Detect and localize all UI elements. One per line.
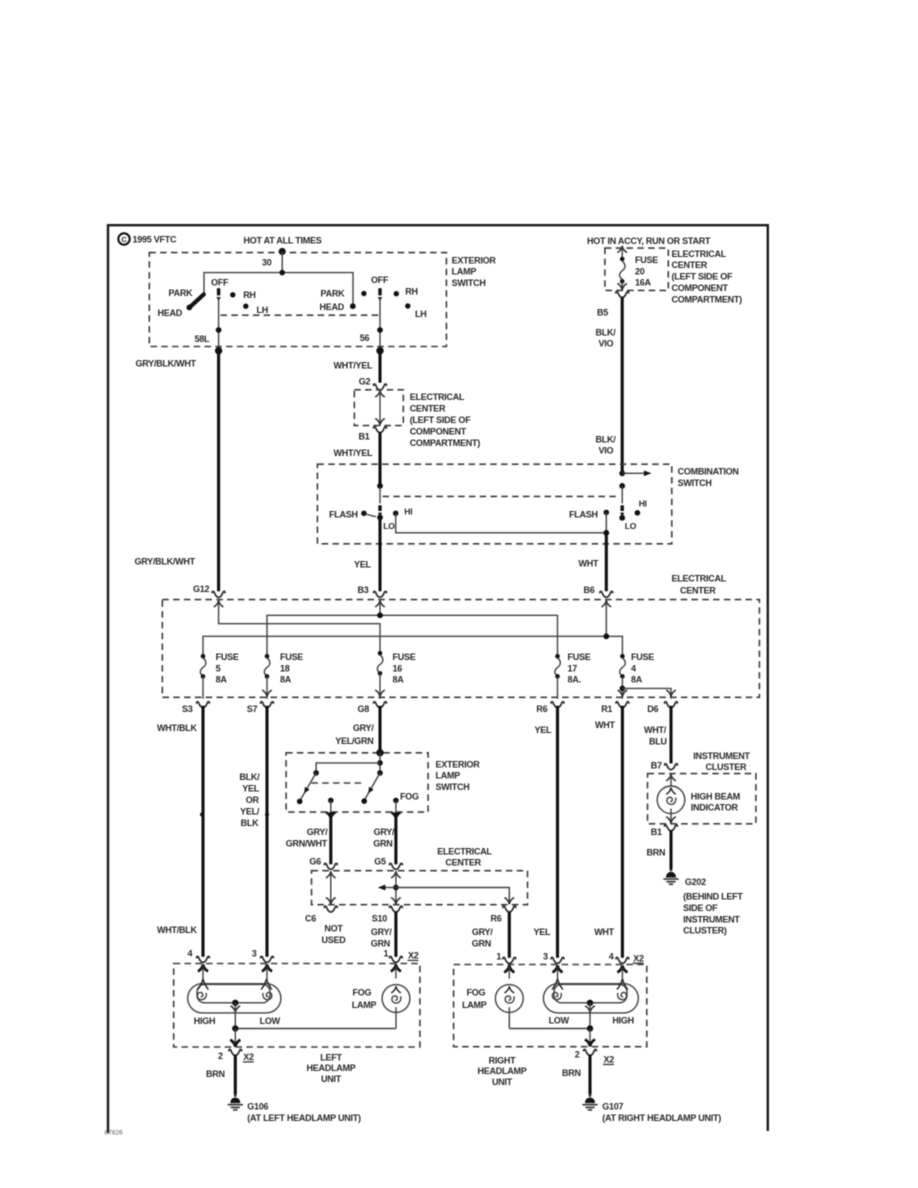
wire 56	[379, 297, 381, 351]
svg-text:16A: 16A	[635, 278, 652, 288]
svg-text:S3: S3	[182, 704, 193, 714]
lamp high beam indicator	[657, 786, 685, 823]
svg-text:COMPARTMENT): COMPARTMENT)	[410, 438, 481, 448]
wire 56 to G2	[378, 351, 381, 383]
copyright symbol	[118, 233, 129, 244]
left headlamp bulb housing	[188, 984, 281, 1013]
right headlamp bulb housing	[543, 984, 638, 1013]
wire B3 entry	[375, 600, 385, 615]
fuse F4	[620, 654, 625, 679]
node feed junction	[279, 270, 285, 276]
svg-text:LH: LH	[415, 309, 427, 319]
svg-text:UNIT: UNIT	[321, 1074, 342, 1084]
contact FLASH right	[604, 510, 610, 516]
contact HI left	[393, 511, 399, 517]
node B5 arrow junction	[619, 470, 651, 476]
label X2 right top	[633, 953, 644, 963]
svg-text:3: 3	[543, 952, 548, 962]
connector S3 cup	[197, 702, 210, 708]
wire D6 to B7	[669, 706, 672, 764]
svg-text:UNIT: UNIT	[492, 1077, 513, 1087]
wire S7 long	[265, 706, 268, 957]
wire G6 passthrough	[326, 871, 336, 904]
node bulb common left	[232, 1000, 238, 1006]
svg-text:PARK: PARK	[169, 288, 194, 298]
svg-text:HI: HI	[639, 498, 647, 508]
label WHT/ BLU	[644, 725, 667, 746]
connector pin2 cup left	[229, 1049, 242, 1055]
wire fog switch feed	[379, 753, 381, 773]
contact HEAD right	[350, 303, 356, 309]
label GRY/ YEL/GRN	[335, 723, 374, 746]
svg-text:CENTER: CENTER	[672, 260, 708, 270]
svg-text:LOW: LOW	[549, 1016, 570, 1026]
fuse F18	[264, 654, 269, 679]
connector G8 cup	[374, 702, 387, 708]
svg-text:LO: LO	[383, 521, 395, 531]
svg-text:LAMP: LAMP	[352, 1000, 377, 1010]
svg-text:3: 3	[252, 949, 257, 959]
wire F16 to G8	[375, 673, 385, 698]
high beam terminal arrow right	[617, 979, 628, 990]
label ELECTRICAL CENTER (EC2)	[437, 846, 492, 867]
wire G5 offpage arrow	[378, 885, 396, 891]
fuse F17	[555, 654, 560, 679]
switch S1b lever OFF	[378, 288, 382, 301]
svg-text:ELECTRICAL: ELECTRICAL	[672, 573, 727, 583]
switch dimmer right lever LO	[619, 505, 625, 520]
svg-text:RIGHT: RIGHT	[489, 1055, 517, 1065]
svg-text:EXTERIOR: EXTERIOR	[452, 255, 497, 265]
wire F18 to S7	[262, 676, 272, 698]
connector pin2 cup right	[584, 1049, 597, 1055]
ground G106	[228, 1095, 243, 1110]
wire F5 to S3	[202, 676, 204, 698]
svg-text:(AT RIGHT HEADLAMP UNIT): (AT RIGHT HEADLAMP UNIT)	[602, 1113, 721, 1123]
label X2 right bottom	[603, 1055, 614, 1065]
svg-text:ELECTRICAL: ELECTRICAL	[410, 392, 465, 402]
svg-text:(LEFT SIDE OF: (LEFT SIDE OF	[410, 415, 472, 425]
svg-text:67826: 67826	[105, 1130, 123, 1137]
low beam terminal arrow left	[261, 979, 272, 990]
connector B5 cup	[616, 292, 629, 298]
svg-text:LAMP: LAMP	[452, 267, 477, 277]
svg-text:GRN: GRN	[373, 838, 392, 848]
exterior lamp switch box S2 (fog)	[286, 753, 428, 812]
svg-text:C: C	[121, 235, 127, 244]
wire B7 entry	[666, 774, 676, 786]
wire BRN right	[588, 1055, 591, 1095]
connector B3 cup	[374, 591, 387, 597]
node G8 box entry	[376, 749, 383, 756]
connector R6 cup	[551, 702, 564, 708]
svg-text:X2: X2	[408, 951, 419, 961]
wire B1 to combination switch	[378, 432, 381, 487]
node 56 exit	[376, 347, 383, 354]
wire G8 to fog switch	[378, 706, 381, 753]
splice S3	[200, 813, 204, 817]
connector C6 cup	[324, 906, 337, 912]
svg-text:8A: 8A	[631, 675, 643, 685]
svg-text:GRN/WHT: GRN/WHT	[286, 838, 328, 848]
svg-text:4: 4	[188, 949, 193, 959]
wire F4 to R1	[618, 676, 628, 698]
svg-text:(AT LEFT HEADLAMP UNIT): (AT LEFT HEADLAMP UNIT)	[247, 1113, 361, 1123]
svg-text:X2: X2	[633, 953, 644, 963]
svg-text:X2: X2	[243, 1052, 254, 1062]
svg-text:4: 4	[631, 663, 636, 673]
wire 58L to G12	[217, 351, 220, 591]
wire feed bus	[204, 273, 353, 306]
svg-text:COMPONENT: COMPONENT	[410, 426, 467, 436]
svg-text:RH: RH	[243, 290, 256, 300]
electrical center EC20 box	[605, 248, 668, 290]
instrument cluster box	[648, 774, 756, 824]
svg-text:B7: B7	[651, 761, 662, 771]
left headlamp unit box	[174, 964, 420, 1048]
label FOG LAMP left	[352, 987, 377, 1010]
node bulb common right	[587, 1000, 593, 1006]
svg-text:BRN: BRN	[206, 1069, 225, 1079]
wire S10 to pin1	[394, 911, 397, 956]
wire G6 exit arrow	[326, 812, 335, 864]
svg-text:4: 4	[609, 952, 614, 962]
svg-text:2: 2	[575, 1050, 580, 1060]
wire S3 long	[201, 706, 204, 957]
svg-text:C6: C6	[305, 913, 316, 923]
connector G5 cup	[390, 863, 403, 869]
svg-text:HIGH BEAM: HIGH BEAM	[691, 791, 740, 801]
svg-text:FOG: FOG	[353, 987, 372, 997]
connector G2 cup	[374, 384, 387, 390]
svg-text:D6: D6	[647, 704, 658, 714]
contact FOG output	[393, 798, 399, 812]
fog lamp left	[382, 985, 410, 1029]
svg-text:HOT IN ACCY, RUN OR START: HOT IN ACCY, RUN OR START	[587, 236, 711, 246]
connector G12 cup	[212, 591, 225, 597]
svg-text:WHT/BLK: WHT/BLK	[157, 925, 197, 935]
label HIGH BEAM INDICATOR	[691, 791, 740, 812]
svg-text:58L: 58L	[195, 334, 211, 344]
svg-text:CENTER: CENTER	[680, 585, 716, 595]
label NOT USED	[321, 923, 346, 944]
node fog feed branch	[377, 760, 383, 766]
connector B1 cup	[374, 427, 387, 433]
node HOT feed	[279, 248, 286, 255]
low beam terminal arrow right	[552, 979, 563, 990]
page frame border	[108, 225, 768, 1133]
svg-text:ELECTRICAL: ELECTRICAL	[672, 249, 727, 259]
wire fuse20 top arrow	[617, 246, 627, 258]
svg-text:NOT: NOT	[324, 923, 343, 933]
svg-text:R6: R6	[491, 913, 502, 923]
svg-text:2: 2	[218, 1051, 223, 1061]
label X2 left bottom	[243, 1052, 254, 1062]
wire G5 exit arrow	[391, 812, 400, 864]
svg-text:B6: B6	[584, 585, 595, 595]
label COMBINATION SWITCH	[678, 467, 739, 488]
wire pin2 exit right	[585, 1029, 595, 1047]
wire pin1 entry arrow right	[504, 965, 514, 978]
wire B5 to combination switch	[621, 297, 624, 474]
svg-text:OFF: OFF	[371, 275, 389, 285]
svg-text:HIGH: HIGH	[612, 1016, 634, 1026]
wire pin4 entry arrow right	[617, 965, 627, 979]
wire pin4 entry arrow	[198, 964, 208, 979]
svg-text:FUSE: FUSE	[280, 652, 303, 662]
svg-text:FUSE: FUSE	[631, 652, 654, 662]
svg-text:8A.: 8A.	[568, 675, 581, 685]
svg-text:WHT/YEL: WHT/YEL	[334, 360, 373, 370]
svg-text:G107: G107	[602, 1101, 623, 1111]
label G107	[602, 1101, 721, 1122]
svg-text:COMPARTMENT): COMPARTMENT)	[672, 294, 743, 304]
svg-text:PARK: PARK	[321, 289, 346, 299]
switch dimmer left lever LO	[377, 505, 383, 520]
svg-text:G6: G6	[309, 856, 321, 866]
connector R6b cup	[503, 906, 516, 912]
right headlamp unit box	[454, 965, 647, 1047]
svg-text:CLUSTER: CLUSTER	[706, 762, 748, 772]
svg-text:OFF: OFF	[211, 277, 229, 287]
node 58L mid	[216, 327, 222, 333]
contact LH right	[405, 303, 410, 308]
svg-text:8A: 8A	[280, 675, 292, 685]
svg-text:17: 17	[568, 663, 578, 673]
svg-text:1: 1	[496, 952, 501, 962]
svg-text:HI: HI	[404, 506, 412, 516]
svg-text:8A: 8A	[393, 675, 405, 685]
node G5 branch	[393, 885, 399, 891]
label EXTERIOR LAMP SWITCH (fog)	[436, 759, 481, 792]
label FUSE 5 8A	[216, 652, 239, 685]
svg-text:FUSE: FUSE	[216, 652, 239, 662]
wire B1c to G202	[669, 830, 672, 869]
svg-text:YEL: YEL	[535, 725, 553, 735]
svg-text:FUSE: FUSE	[568, 652, 591, 662]
wire fog return left	[235, 1028, 396, 1030]
switch S1a lever PARK-HEAD	[186, 294, 203, 310]
label GRY/ GRN/WHT	[286, 827, 328, 848]
contact RH right	[394, 291, 399, 296]
connector pin4 cup	[197, 956, 210, 962]
svg-text:INSTRUMENT: INSTRUMENT	[683, 914, 740, 924]
svg-text:R6: R6	[536, 704, 547, 714]
connector S10 cup	[390, 906, 403, 912]
svg-text:GRN: GRN	[472, 939, 491, 949]
svg-text:(LEFT SIDE OF: (LEFT SIDE OF	[672, 272, 734, 282]
label FUSE 4 8A	[631, 652, 654, 685]
connector S7 cup	[261, 702, 274, 708]
svg-text:1: 1	[384, 949, 389, 959]
svg-text:GRY/BLK/WHT: GRY/BLK/WHT	[135, 557, 196, 567]
switch fog left pole	[297, 770, 319, 804]
high beam filament left	[197, 992, 206, 999]
label GRY/ GRN (pin1 right)	[472, 927, 493, 948]
svg-text:HIGH: HIGH	[194, 1016, 216, 1026]
svg-text:BLK: BLK	[241, 818, 259, 828]
svg-text:(BEHIND LEFT: (BEHIND LEFT	[683, 892, 743, 902]
svg-text:G8: G8	[358, 704, 370, 714]
wire B6 entry	[602, 600, 612, 636]
low beam filament left	[263, 992, 272, 999]
svg-text:INDICATOR: INDICATOR	[691, 803, 739, 813]
svg-text:YEL: YEL	[534, 927, 552, 937]
svg-text:FOG: FOG	[467, 987, 486, 997]
wire G5 to R6 out	[396, 888, 514, 905]
svg-text:WHT: WHT	[595, 720, 615, 730]
exterior lamp switch box S1	[149, 253, 446, 347]
wire HI left to B6 junction	[396, 513, 607, 533]
node 56 mid	[377, 327, 383, 333]
wire bus B3 to fuses 18 and 17	[267, 615, 558, 656]
label BLK/VIO lower	[596, 434, 617, 455]
fuse F20	[617, 257, 627, 291]
label INSTRUMENT CLUSTER	[693, 751, 750, 772]
svg-text:1995 VFTC: 1995 VFTC	[133, 235, 178, 245]
label G106	[247, 1101, 361, 1122]
node B6 junction	[603, 530, 609, 536]
wire BRN left	[234, 1055, 237, 1095]
wire F17 to R6	[557, 676, 559, 698]
svg-text:CENTER: CENTER	[410, 404, 446, 414]
wire pin1 entry arrow	[391, 964, 401, 978]
contact PARK right	[361, 291, 366, 296]
wire B6 drop	[605, 533, 608, 591]
wire R1 long WHT	[621, 706, 624, 958]
label X2 left top	[408, 951, 419, 961]
label GRY/ GRN (pin1 left)	[371, 927, 392, 948]
connector B7 cup	[665, 764, 678, 770]
label FUSE 20 16A	[635, 255, 658, 288]
svg-text:FUSE: FUSE	[393, 652, 416, 662]
svg-text:YEL/GRN: YEL/GRN	[335, 736, 373, 746]
connector D6 cup	[665, 702, 678, 708]
svg-text:LAMP: LAMP	[436, 771, 461, 781]
contact RH left	[230, 292, 235, 297]
contact LH left	[243, 304, 248, 309]
svg-text:B3: B3	[358, 585, 369, 595]
label GRY/ GRN (S10)	[373, 827, 395, 848]
svg-text:GRY/: GRY/	[353, 723, 374, 733]
svg-text:G2: G2	[359, 376, 371, 386]
connector pin3 cup right	[551, 957, 564, 963]
connector pin4 cup right	[616, 957, 629, 963]
wire F4 to D6	[622, 688, 675, 698]
svg-text:G202: G202	[685, 877, 706, 887]
svg-text:BLK/: BLK/	[596, 327, 617, 337]
fog lamp right	[495, 985, 523, 1029]
label FOG LAMP right	[462, 987, 487, 1010]
svg-text:GRY/: GRY/	[307, 827, 328, 837]
svg-text:SWITCH: SWITCH	[678, 478, 712, 488]
svg-text:FOG: FOG	[400, 792, 419, 802]
wire bulb common right exit	[585, 1003, 595, 1029]
svg-text:B1: B1	[651, 827, 662, 837]
node 58L exit	[215, 347, 222, 354]
high beam filament right	[618, 992, 627, 999]
svg-text:B5: B5	[597, 307, 608, 317]
svg-text:WHT: WHT	[579, 558, 599, 568]
svg-text:BLK/: BLK/	[596, 434, 617, 444]
label BLK/VIO upper	[596, 327, 617, 348]
svg-text:CLUSTER): CLUSTER)	[683, 926, 727, 936]
svg-text:LOW: LOW	[260, 1016, 281, 1026]
wire bus B6 to fuses 5 and 4	[203, 636, 622, 656]
svg-text:BRN: BRN	[562, 1068, 581, 1078]
wire feed drop	[281, 252, 283, 273]
svg-text:LEFT: LEFT	[320, 1052, 342, 1062]
connector G6 cup	[324, 863, 337, 869]
svg-text:FUSE: FUSE	[635, 255, 658, 265]
svg-text:VIO: VIO	[599, 446, 614, 456]
svg-text:CENTER: CENTER	[445, 858, 481, 868]
svg-text:COMPONENT: COMPONENT	[672, 283, 729, 293]
label ELECTRICAL CENTER (EC1)	[672, 573, 727, 595]
label FUSE 18 8A	[280, 652, 303, 685]
contact G6 output	[328, 798, 334, 812]
svg-text:18: 18	[280, 663, 290, 673]
svg-text:G12: G12	[193, 584, 210, 594]
node B3 bus	[377, 612, 383, 618]
svg-text:USED: USED	[321, 935, 346, 945]
electrical center EC2 box	[312, 871, 528, 905]
wire dimmer left feed	[379, 487, 381, 503]
svg-text:SIDE OF: SIDE OF	[683, 903, 718, 913]
splice S7	[265, 813, 269, 817]
svg-text:VIO: VIO	[599, 339, 614, 349]
wire fog return right	[509, 1028, 590, 1030]
svg-text:SWITCH: SWITCH	[452, 278, 486, 288]
fuse F16	[377, 651, 382, 676]
fuse F5	[200, 654, 205, 679]
svg-text:30: 30	[262, 257, 272, 267]
node dimmer left	[377, 483, 383, 489]
label ELECTRICAL CENTER (G2)	[410, 392, 481, 448]
svg-text:GRY/: GRY/	[371, 927, 392, 937]
node B6 bus	[603, 633, 609, 639]
label LEFT HEADLAMP UNIT	[307, 1052, 356, 1084]
svg-text:LAMP: LAMP	[462, 1000, 487, 1010]
svg-text:OR: OR	[246, 795, 260, 805]
svg-text:GRN: GRN	[371, 939, 390, 949]
svg-text:HOT AT ALL TIMES: HOT AT ALL TIMES	[244, 235, 322, 245]
label G202	[683, 877, 743, 936]
connector B1c cup	[665, 825, 678, 831]
node dimmer right	[619, 483, 625, 489]
connector R1 cup	[616, 702, 629, 708]
wire pin2 exit left	[230, 1029, 240, 1047]
label RIGHT HEADLAMP UNIT	[478, 1055, 527, 1087]
wire FLASH right drop	[605, 512, 607, 532]
svg-text:WHT/YEL: WHT/YEL	[334, 448, 373, 458]
wire G12 entry	[214, 600, 380, 653]
svg-text:BRN: BRN	[647, 848, 666, 858]
svg-text:5: 5	[216, 663, 221, 673]
connector pin1 cup	[390, 956, 403, 962]
svg-text:YEL/: YEL/	[240, 806, 260, 816]
svg-text:HEADLAMP: HEADLAMP	[307, 1063, 356, 1073]
label BLK/YEL OR YEL/BLK	[239, 772, 260, 828]
wire G5 internal	[391, 871, 401, 904]
svg-text:GRY/: GRY/	[374, 827, 395, 837]
svg-text:G106: G106	[247, 1101, 268, 1111]
svg-text:ELECTRICAL: ELECTRICAL	[437, 846, 492, 856]
svg-text:GRY/: GRY/	[472, 927, 493, 937]
wire R6b to pin1 right	[508, 911, 511, 957]
contact FLASH left	[361, 511, 376, 517]
combination switch box	[317, 464, 671, 544]
